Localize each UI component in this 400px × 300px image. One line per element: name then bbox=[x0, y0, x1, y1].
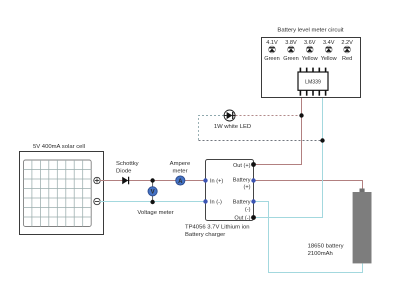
svg-text:Voltage meter: Voltage meter bbox=[137, 210, 173, 216]
svg-text:3.8V: 3.8V bbox=[285, 40, 297, 46]
svg-text:Battery: Battery bbox=[233, 200, 251, 206]
svg-text:In (+): In (+) bbox=[210, 179, 223, 185]
svg-text:Ampere: Ampere bbox=[170, 161, 191, 167]
svg-text:meter: meter bbox=[172, 169, 187, 175]
svg-text:(-): (-) bbox=[245, 207, 251, 213]
svg-text:In (-): In (-) bbox=[210, 200, 222, 206]
svg-text:Battery level meter circuit: Battery level meter circuit bbox=[277, 28, 343, 34]
svg-text:Diode: Diode bbox=[116, 169, 132, 175]
svg-text:2100mAh: 2100mAh bbox=[308, 251, 333, 257]
svg-text:Out (-): Out (-) bbox=[234, 216, 250, 222]
svg-text:2.2V: 2.2V bbox=[341, 40, 353, 46]
svg-text:Green: Green bbox=[264, 56, 280, 62]
svg-text:3.4V: 3.4V bbox=[323, 40, 335, 46]
svg-text:5V 400mA solar cell: 5V 400mA solar cell bbox=[33, 144, 85, 150]
svg-text:LM339: LM339 bbox=[305, 80, 321, 86]
svg-text:Battery charger: Battery charger bbox=[185, 232, 225, 238]
svg-text:Yellow: Yellow bbox=[302, 56, 319, 62]
svg-text:Battery: Battery bbox=[233, 178, 251, 184]
svg-text:18650 battery: 18650 battery bbox=[308, 244, 344, 250]
svg-text:1W white LED: 1W white LED bbox=[214, 124, 251, 130]
svg-text:Green: Green bbox=[283, 56, 299, 62]
svg-text:Schottky: Schottky bbox=[116, 161, 139, 167]
svg-text:V: V bbox=[151, 190, 155, 196]
svg-text:Yellow: Yellow bbox=[321, 56, 338, 62]
svg-text:Red: Red bbox=[342, 56, 352, 62]
svg-text:Out (+): Out (+) bbox=[233, 163, 251, 169]
svg-text:3.6V: 3.6V bbox=[304, 40, 316, 46]
svg-text:A: A bbox=[178, 179, 183, 185]
svg-text:TP4056 3.7V Lithium ion: TP4056 3.7V Lithium ion bbox=[185, 225, 250, 231]
svg-text:(+): (+) bbox=[244, 185, 251, 191]
svg-text:4.1V: 4.1V bbox=[266, 40, 278, 46]
